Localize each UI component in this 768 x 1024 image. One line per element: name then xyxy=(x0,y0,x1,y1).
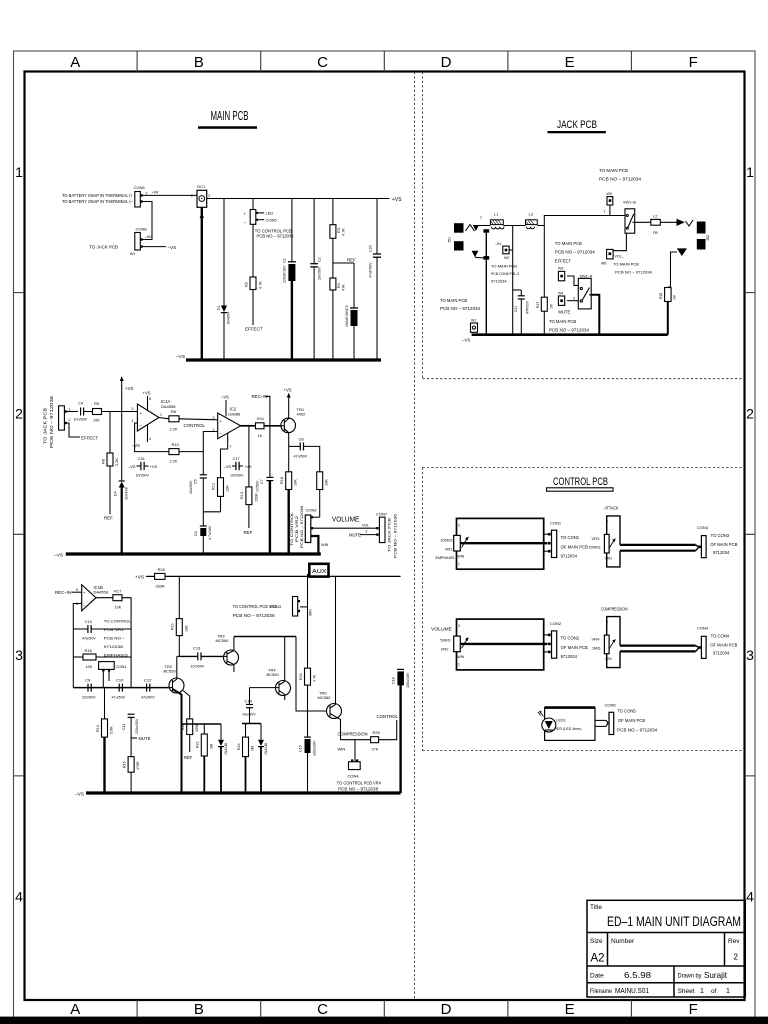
svg-text:R27: R27 xyxy=(536,302,540,308)
svg-text:R26: R26 xyxy=(158,567,166,572)
wire jack sleeve to rail xyxy=(485,233,487,335)
svg-text:7: 7 xyxy=(230,445,232,449)
svg-text:4: 4 xyxy=(149,437,151,441)
svg-text:1MΩ: 1MΩ xyxy=(592,645,601,650)
svg-text:WIN: WIN xyxy=(309,609,313,616)
title CONTROL PCB xyxy=(547,476,614,491)
svg-text:REF: REF xyxy=(347,258,356,263)
svg-text:R8: R8 xyxy=(102,459,106,464)
svg-text:TO MAIN PCB: TO MAIN PCB xyxy=(549,319,576,324)
resistor R11 1K xyxy=(256,416,282,438)
row dividers left margin xyxy=(14,293,25,776)
svg-text:BC550: BC550 xyxy=(267,672,280,677)
svg-text:–VS: –VS xyxy=(132,443,140,448)
svg-text:L1: L1 xyxy=(494,212,499,217)
svg-text:VOL: VOL xyxy=(362,523,369,527)
row numbers left xyxy=(15,164,23,905)
svg-text:–VS: –VS xyxy=(168,245,177,250)
wire TR4 base with capacitor C14 10u/50V xyxy=(242,688,276,724)
svg-text:1: 1 xyxy=(69,408,71,412)
resistor R16 10K xyxy=(73,648,131,669)
svg-text:PCB NO – 9712034: PCB NO – 9712034 xyxy=(617,728,658,733)
+VS rail top xyxy=(135,575,155,581)
svg-text:Filename: Filename xyxy=(590,988,612,995)
svg-text:2.2K: 2.2K xyxy=(115,458,119,466)
svg-text:C19: C19 xyxy=(85,619,93,624)
svg-text:EFFECT: EFFECT xyxy=(81,436,98,441)
svg-text:1: 1 xyxy=(458,663,460,667)
svg-text:PCB NO – 9712036: PCB NO – 9712036 xyxy=(49,395,54,448)
svg-text:10K: 10K xyxy=(226,485,230,492)
svg-text:4002: 4002 xyxy=(297,412,307,417)
svg-text:R5: R5 xyxy=(94,401,100,406)
svg-text:C13: C13 xyxy=(193,646,201,651)
inductor L3 xyxy=(526,212,538,229)
svg-text:PCB NO –: PCB NO – xyxy=(104,636,126,641)
wire COMPRESSION with resistor R25 27K xyxy=(338,714,399,752)
svg-text:+VS: +VS xyxy=(284,388,292,393)
potentiometer VR4 COMPRESSION block xyxy=(592,607,699,668)
long vertical partition xyxy=(413,72,415,999)
svg-text:1: 1 xyxy=(726,988,730,995)
svg-text:CONTROL: CONTROL xyxy=(184,423,206,428)
svg-text:C7: C7 xyxy=(260,479,264,484)
resistor R13 150K to REF xyxy=(240,426,259,535)
capacitor C21 47P/50V xyxy=(513,290,530,335)
svg-text:VR2: VR2 xyxy=(441,647,450,652)
svg-text:TO JACK PCB: TO JACK PCB xyxy=(89,245,118,250)
svg-text:10K: 10K xyxy=(115,606,122,610)
svg-text:C: C xyxy=(317,54,328,71)
svg-text:TO CON4: TO CON4 xyxy=(711,634,730,639)
svg-text:47u/50V: 47u/50V xyxy=(141,696,155,700)
svg-text:+: + xyxy=(83,590,86,595)
connector CON4 from jack pcb xyxy=(43,395,71,448)
svg-text:EMPHASIS: EMPHASIS xyxy=(104,653,128,658)
diode D4 1N4148 with +VS arrow xyxy=(114,376,134,554)
svg-text:9712034: 9712034 xyxy=(713,651,730,656)
limiter pair bus B xyxy=(242,723,261,725)
svg-text:6.5.98: 6.5.98 xyxy=(624,970,651,980)
connector W1 xyxy=(440,298,481,343)
svg-text:E: E xyxy=(565,1001,575,1018)
title MAIN PCB xyxy=(198,109,257,129)
svg-text:9712034: 9712034 xyxy=(561,554,578,559)
+VS supply arrow at TR1 collector xyxy=(284,388,292,407)
svg-text:47uF/50V: 47uF/50V xyxy=(369,262,373,278)
connector W4 MUTE xyxy=(549,292,590,333)
svg-text:1N4004: 1N4004 xyxy=(227,312,231,325)
svg-text:JACK PCB: JACK PCB xyxy=(557,119,597,131)
svg-text:3: 3 xyxy=(746,647,754,663)
svg-text:W3: W3 xyxy=(558,267,563,271)
connector CON6 battery snap xyxy=(62,185,148,207)
svg-text:TO MAIN PCB: TO MAIN PCB xyxy=(555,241,582,246)
capacitor C2 10n/50V xyxy=(310,199,321,361)
LED / CON5 branch to control pcb xyxy=(244,199,295,239)
svg-text:F: F xyxy=(689,54,698,71)
svg-text:TO CON1: TO CON1 xyxy=(561,535,580,540)
-VS rail jack pcb xyxy=(472,333,668,336)
svg-text:47n/50V: 47n/50V xyxy=(294,455,308,459)
svg-text:1: 1 xyxy=(700,988,704,995)
svg-text:RED (LED 3mm): RED (LED 3mm) xyxy=(555,726,583,731)
resistor R3 4.7K xyxy=(330,199,346,264)
svg-text:8: 8 xyxy=(149,397,151,401)
svg-text:MUTE: MUTE xyxy=(558,310,570,315)
node MUTE xyxy=(131,736,150,741)
capacitor C1 220uF/16V electrolytic xyxy=(283,199,296,361)
svg-text:150K: 150K xyxy=(255,493,259,502)
svg-text:LED: LED xyxy=(266,211,274,216)
MAIN PCB : preamp / volume section xyxy=(43,376,398,558)
-VS power rail bottom xyxy=(75,792,401,798)
capacitor C6 4.7u/16V xyxy=(194,512,212,554)
capacitor C11 220u/35V and resistor R15 470R xyxy=(122,714,140,793)
svg-text:–9V: –9V xyxy=(145,234,152,239)
svg-text:PCB NO – 9712038: PCB NO – 9712038 xyxy=(338,786,379,791)
svg-text:1: 1 xyxy=(480,216,482,220)
svg-text:–VS: –VS xyxy=(462,338,470,343)
svg-text:100KΩ: 100KΩ xyxy=(440,538,452,543)
svg-text:Size: Size xyxy=(590,938,603,945)
svg-text:3: 3 xyxy=(208,194,210,198)
svg-text:WIN: WIN xyxy=(458,655,465,659)
transistor TR2 BC550 xyxy=(164,656,185,793)
capacitor C20 47uF/50V xyxy=(369,199,382,361)
svg-text:CON5: CON5 xyxy=(266,218,278,223)
JACK PCB section xyxy=(440,168,710,343)
svg-text:PCB NO – 9712034: PCB NO – 9712034 xyxy=(440,306,481,311)
svg-text:100u/16V: 100u/16V xyxy=(313,740,317,756)
svg-text:470R: 470R xyxy=(136,761,140,770)
svg-text:4.7K: 4.7K xyxy=(313,674,317,682)
svg-text:–9V: –9V xyxy=(495,242,502,246)
svg-text:PCB NO – 9712038: PCB NO – 9712038 xyxy=(299,505,304,548)
wire CON6 pin2 jog down to CON8 xyxy=(143,202,152,240)
connector W5 xyxy=(604,192,613,216)
svg-text:Number: Number xyxy=(611,938,635,945)
op-amp IC2 LM386 xyxy=(213,395,241,450)
svg-text:D1: D1 xyxy=(217,305,221,310)
svg-text:TO JACK PCB: TO JACK PCB xyxy=(43,408,48,444)
svg-text:9712034: 9712034 xyxy=(713,550,730,555)
wire L2 to output jack xyxy=(660,221,676,223)
svg-text:TO MAIN PCB: TO MAIN PCB xyxy=(599,168,628,173)
svg-text:4: 4 xyxy=(746,889,754,905)
connector CON1 xyxy=(99,662,128,688)
svg-text:C11: C11 xyxy=(122,724,126,730)
resistor R18 10K xyxy=(280,446,298,553)
potentiometer VR3 ATTACK block xyxy=(588,505,699,567)
resistor R22 1M xyxy=(196,724,214,793)
wire junction down to W2 and rail xyxy=(512,226,514,335)
wire CON2 pin1 xyxy=(313,516,320,518)
svg-text:+VS: +VS xyxy=(135,575,144,581)
svg-text:MC560: MC560 xyxy=(318,695,332,700)
svg-text:ED–1 MAIN UNIT DIAGRAM: ED–1 MAIN UNIT DIAGRAM xyxy=(607,914,741,929)
svg-text:R3: R3 xyxy=(337,228,341,233)
capacitor C5 10u/50V xyxy=(189,452,221,512)
svg-text:EFFECT: EFFECT xyxy=(245,327,263,332)
-VS power rail xyxy=(54,553,321,559)
svg-text:TO MAIN PCB: TO MAIN PCB xyxy=(440,298,467,303)
connector CON8 to jack pcb xyxy=(89,227,152,256)
svg-text:–VS: –VS xyxy=(176,354,185,360)
svg-text:WIN: WIN xyxy=(605,657,612,661)
potentiometer VR1 EMPHASIS block xyxy=(436,518,548,569)
svg-text:Rev: Rev xyxy=(728,938,740,945)
column letters bottom xyxy=(70,1001,697,1018)
svg-text:1M: 1M xyxy=(550,304,554,309)
svg-text:–: – xyxy=(83,602,86,607)
svg-text:10n/50V: 10n/50V xyxy=(318,266,322,280)
svg-text:Surajit: Surajit xyxy=(704,970,728,980)
svg-text:5: 5 xyxy=(76,588,78,592)
svg-text:C8: C8 xyxy=(299,437,305,442)
MAIN PCB : power supply section xyxy=(62,184,402,360)
svg-text:TO MAIN PCB: TO MAIN PCB xyxy=(491,263,517,268)
svg-text:47K: 47K xyxy=(342,284,346,291)
op-amp IC1B DA4558 xyxy=(55,585,109,611)
row dividers right margin xyxy=(745,293,756,776)
jack J51 input xyxy=(448,216,490,260)
wire DC1 down to -VS rail xyxy=(200,207,204,360)
svg-text:FB: FB xyxy=(653,231,658,235)
svg-text:3: 3 xyxy=(132,407,134,411)
svg-text:TO CON5: TO CON5 xyxy=(617,709,636,714)
svg-text:AUX: AUX xyxy=(312,569,327,575)
svg-text:MAIN PCB: MAIN PCB xyxy=(211,109,249,123)
svg-text:9712038: 9712038 xyxy=(104,644,124,649)
svg-text:1K: 1K xyxy=(258,434,263,438)
svg-text:Sheet: Sheet xyxy=(678,988,695,995)
svg-text:W6: W6 xyxy=(601,262,606,266)
svg-text:R6: R6 xyxy=(171,409,177,414)
svg-text:1N4148: 1N4148 xyxy=(224,743,228,755)
svg-text:+: + xyxy=(140,411,143,416)
wire op-amp output xyxy=(159,418,169,419)
svg-text:A2: A2 xyxy=(591,953,605,965)
resistor R24 1M xyxy=(237,724,255,794)
svg-text:C3: C3 xyxy=(345,305,349,310)
svg-text:C16: C16 xyxy=(138,457,145,461)
svg-text:TO BATTERY SNAP IN THERMINAL (: TO BATTERY SNAP IN THERMINAL (+ xyxy=(62,193,133,198)
svg-text:3: 3 xyxy=(606,520,608,524)
svg-text:R4: R4 xyxy=(337,283,341,288)
svg-text:VOLUME: VOLUME xyxy=(431,627,452,632)
svg-text:PCB NO – 9712034: PCB NO – 9712034 xyxy=(549,328,590,333)
resistor R5 10K xyxy=(93,401,138,423)
wire L1 to L3 xyxy=(503,225,525,227)
svg-text:C12: C12 xyxy=(144,678,152,683)
capacitor C16 10n/50V decoupling xyxy=(128,457,158,478)
svg-text:–: – xyxy=(244,220,247,225)
svg-text:TO JACK PCB: TO JACK PCB xyxy=(387,518,392,552)
svg-text:10n/50V: 10n/50V xyxy=(191,665,205,669)
connector W6 VOL xyxy=(601,233,653,275)
svg-text:R2: R2 xyxy=(245,282,249,287)
svg-text:E: E xyxy=(565,54,575,71)
svg-text:47u/50V: 47u/50V xyxy=(112,696,126,700)
capacitor C18 100u/16V electrolytic xyxy=(392,669,411,793)
svg-text:2: 2 xyxy=(69,418,71,422)
collector bus wire xyxy=(234,636,296,638)
svg-text:MAINU.S01: MAINU.S01 xyxy=(615,986,649,995)
connector CON3 to control pcb VR3 xyxy=(233,597,308,618)
control pcb box bottom edge xyxy=(423,750,745,752)
svg-text:22n/50V: 22n/50V xyxy=(82,696,96,700)
svg-text:1: 1 xyxy=(573,281,575,285)
svg-text:1: 1 xyxy=(604,210,606,214)
switch SW1-B xyxy=(623,201,636,234)
svg-text:CON1: CON1 xyxy=(116,664,128,669)
resistor R26 330R xyxy=(155,567,401,589)
svg-text:W5: W5 xyxy=(607,192,612,196)
resistor R17 10K xyxy=(113,588,131,687)
capacitor C8 47n/50V xyxy=(289,437,320,472)
svg-text:C15: C15 xyxy=(299,745,303,752)
svg-text:1n/50V: 1n/50V xyxy=(256,480,260,492)
svg-text:J51: J51 xyxy=(448,237,452,243)
column dividers top margin xyxy=(137,51,631,72)
svg-text:9712034: 9712034 xyxy=(561,654,578,659)
svg-text:SW1–B: SW1–B xyxy=(623,201,636,205)
svg-text:+VS: +VS xyxy=(143,391,151,396)
LED1 indicator block xyxy=(538,708,595,741)
svg-text:EFFECT: EFFECT xyxy=(555,259,572,264)
column letters top xyxy=(70,54,697,71)
svg-text:+: + xyxy=(244,212,247,217)
svg-text:100uF/16V: 100uF/16V xyxy=(345,309,349,327)
wire CON8 to -VS label xyxy=(143,245,176,250)
connector CON5 of control pcb xyxy=(595,703,658,735)
svg-text:4.7K: 4.7K xyxy=(259,281,263,289)
wire MUTE to CON7 xyxy=(349,532,376,537)
svg-text:MUTE: MUTE xyxy=(349,532,361,537)
svg-text:C9: C9 xyxy=(85,678,91,683)
svg-text:CONTROL PCB: CONTROL PCB xyxy=(553,476,608,488)
svg-text:R14: R14 xyxy=(96,725,100,732)
svg-text:PCB NO – 9712034: PCB NO – 9712034 xyxy=(615,270,653,275)
control pcb box top edge xyxy=(423,466,745,468)
connector CON1 of control pcb xyxy=(544,521,588,559)
connector W3 xyxy=(558,267,578,286)
svg-text:C10: C10 xyxy=(116,678,124,683)
svg-text:TO CON3: TO CON3 xyxy=(711,533,730,538)
svg-text:L3: L3 xyxy=(529,212,534,217)
svg-text:WIN: WIN xyxy=(605,557,612,561)
diode D3 1N4148 xyxy=(258,724,268,794)
svg-text:10K: 10K xyxy=(294,479,298,486)
svg-text:LM386: LM386 xyxy=(228,411,241,416)
svg-text:D: D xyxy=(441,1001,452,1018)
resistor R21 10K from rail xyxy=(171,576,189,656)
capacitor C3 100uF/16V electrolytic xyxy=(345,263,358,360)
bottom black bar xyxy=(0,1017,768,1024)
svg-text:CON2: CON2 xyxy=(306,508,318,513)
jack pcb box bottom edge xyxy=(423,378,745,380)
signal wire bottom xyxy=(73,687,169,689)
row numbers right xyxy=(746,164,754,905)
svg-text:MC560: MC560 xyxy=(216,638,230,643)
svg-text:R16: R16 xyxy=(85,648,93,653)
svg-text:R10: R10 xyxy=(172,442,180,447)
svg-text:MUTE: MUTE xyxy=(139,736,151,741)
svg-text:SW1–A: SW1–A xyxy=(580,274,593,278)
svg-text:4: 4 xyxy=(15,889,23,905)
svg-text:B: B xyxy=(194,54,204,71)
svg-text:C21: C21 xyxy=(514,306,518,312)
svg-text:1: 1 xyxy=(15,164,23,180)
svg-text:COMPRESSION: COMPRESSION xyxy=(338,732,368,737)
svg-text:1M: 1M xyxy=(210,744,214,749)
inductor L2 ferrite bead xyxy=(651,213,661,235)
svg-text:CON8: CON8 xyxy=(136,227,148,232)
resistor R8 2.2K branch xyxy=(102,412,120,521)
svg-text:LED1: LED1 xyxy=(556,718,567,723)
svg-text:R13: R13 xyxy=(240,492,244,499)
node REF xyxy=(333,258,356,264)
svg-text:1: 1 xyxy=(746,164,754,180)
+VS rail wire xyxy=(207,197,403,203)
svg-text:VOL..: VOL.. xyxy=(615,255,624,259)
svg-text:47P/50V: 47P/50V xyxy=(526,300,530,314)
svg-text:REC–IN: REC–IN xyxy=(55,590,71,595)
svg-text:2: 2 xyxy=(366,530,368,534)
limiter pair bus A xyxy=(182,723,222,725)
svg-text:1N4148: 1N4148 xyxy=(125,487,129,500)
MAIN PCB : compressor / output section xyxy=(55,564,410,798)
svg-text:10K: 10K xyxy=(93,419,100,423)
wire ring contact to resistor R28 xyxy=(668,252,677,287)
feedback wire with resistor R10 2.2K xyxy=(135,423,218,464)
svg-text:PCB VR1: PCB VR1 xyxy=(104,627,125,632)
svg-text:+9V: +9V xyxy=(152,190,160,195)
transistor TR1 4002 xyxy=(281,407,306,447)
capacitor C12 47u/50V xyxy=(141,678,155,700)
svg-text:C: C xyxy=(317,1001,328,1018)
svg-text:2: 2 xyxy=(132,419,134,423)
svg-text:ATTACK: ATTACK xyxy=(604,505,618,510)
feedback wire xyxy=(73,604,81,688)
title block xyxy=(587,900,745,997)
svg-text:PCB CON8 PIN–3: PCB CON8 PIN–3 xyxy=(491,271,520,276)
jack J52 output xyxy=(677,219,710,256)
connector CON2 of control pcb xyxy=(544,621,588,659)
svg-text:3: 3 xyxy=(606,620,608,624)
wire tip to L1 xyxy=(477,225,490,227)
svg-text:C17: C17 xyxy=(233,457,240,461)
svg-text:CON4: CON4 xyxy=(348,774,360,779)
svg-text:10n/50V: 10n/50V xyxy=(230,474,244,478)
svg-text:TO BATTERY SNAP IN THERMINAL (: TO BATTERY SNAP IN THERMINAL (– xyxy=(62,199,134,204)
svg-text:OF MAIN PCB: OF MAIN PCB xyxy=(710,643,737,648)
svg-text:R18: R18 xyxy=(280,477,284,484)
svg-text:+VS: +VS xyxy=(392,197,402,203)
potentiometer VR2 VOLUME block xyxy=(431,619,548,670)
wire input signal xyxy=(67,411,78,413)
svg-text:–: – xyxy=(220,431,223,436)
svg-text:W4: W4 xyxy=(558,292,563,296)
resistor R12 10K xyxy=(212,449,230,512)
svg-text:REF: REF xyxy=(244,530,253,535)
svg-text:PCB NO – 9712038: PCB NO – 9712038 xyxy=(257,234,295,239)
connector CON4 of control pcb xyxy=(697,626,738,659)
svg-text:PCB NO – 9712034: PCB NO – 9712034 xyxy=(599,177,642,182)
title block text xyxy=(590,904,741,995)
svg-text:CON3: CON3 xyxy=(270,604,282,609)
